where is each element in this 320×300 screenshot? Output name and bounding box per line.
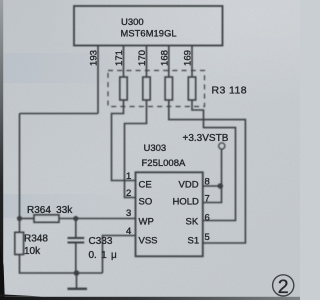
wire R3-b to U303 pin2 SO (125, 100, 147, 198)
wire U303 pin8 VDD to +3.3VSTB node (203, 185, 222, 187)
U303 pin number 7 (205, 194, 210, 205)
wire R364 to WP (59, 218, 136, 220)
svg-text:1: 1 (126, 171, 131, 182)
wire pin 171 stub (123, 46, 125, 78)
svg-text:MST6M19GL: MST6M19GL (121, 29, 177, 39)
resistor R348 (15, 232, 24, 254)
U303 pin number 2 (126, 188, 131, 199)
svg-text:R348: R348 (24, 234, 48, 245)
junction node A (left rail / R364 / R348) (17, 216, 22, 221)
svg-text:F25L008A: F25L008A (142, 158, 187, 169)
svg-text:CE: CE (139, 180, 152, 191)
resistor pack dashed outline R3 (108, 71, 205, 107)
U303 pin name SO (139, 197, 153, 208)
svg-text:R3 118: R3 118 (212, 85, 247, 97)
resistor R3-a (120, 77, 127, 100)
label MST6M19GL (121, 29, 177, 39)
resistor R364 (34, 215, 59, 223)
label R348 (24, 234, 48, 245)
page number circle 2 (273, 275, 294, 298)
svg-text:2: 2 (126, 188, 131, 199)
wire pin 193 vertical from U300 (97, 46, 99, 114)
svg-text:3: 3 (126, 208, 131, 219)
U303 pin name WP (139, 217, 154, 228)
svg-text:8: 8 (205, 177, 210, 188)
U303 pin name VSS (139, 236, 158, 247)
wire U303 pin3 WP rail with R364 (20, 218, 35, 220)
svg-text:171: 171 (114, 50, 125, 66)
page left dark edge (0, 0, 3, 300)
svg-text:HOLD: HOLD (173, 197, 200, 208)
U303 pin name SI (188, 236, 200, 247)
wire R3-a to U303 pin1 CE (112, 100, 136, 181)
junction node VDD / HOLD / +3.3VSTB (218, 183, 224, 189)
svg-text:169: 169 (183, 50, 194, 66)
capacitor C333 bottom lead (75, 244, 77, 274)
U303 pin number 4 (126, 226, 131, 237)
svg-text:4: 4 (126, 226, 131, 237)
capacitor C333 plates (68, 237, 85, 239)
label 0.1u (89, 250, 117, 261)
label U300 (121, 17, 144, 28)
U303 pin number 6 (205, 213, 210, 224)
ground bar (68, 288, 88, 290)
junction node C333 / ground / bottom rail (74, 270, 80, 276)
capacitor C333 top lead (75, 219, 77, 238)
svg-text:U303: U303 (144, 143, 167, 154)
label R364 33k (27, 205, 73, 216)
wire +3.3VSTB terminal lead (221, 149, 223, 186)
svg-text:SO: SO (139, 197, 153, 208)
svg-text:S1: S1 (188, 236, 200, 247)
svg-text:WP: WP (139, 217, 154, 228)
resistor R3-b (143, 77, 150, 100)
svg-text:U300: U300 (121, 17, 144, 28)
label U303 (144, 143, 167, 154)
svg-text:10k: 10k (24, 246, 41, 257)
wire R3-c to U303 pin5 SI (169, 100, 246, 243)
U303 pin number 1 (126, 171, 131, 182)
wire R348 to bottom rail (20, 255, 103, 274)
wire R3-d to U303 pin6 SK (192, 100, 236, 221)
ground lead (76, 273, 78, 288)
svg-text:193: 193 (89, 50, 100, 66)
svg-text:2: 2 (278, 276, 289, 298)
svg-text:VSS: VSS (139, 236, 158, 247)
junction node WP / C333 (73, 216, 78, 221)
svg-text:5: 5 (205, 232, 210, 243)
U303 pin name VDD (179, 180, 199, 191)
wire U303 pin4 VSS down to bottom rail (103, 236, 136, 274)
resistor R3-c (165, 77, 172, 100)
label F25L008A (142, 158, 187, 169)
wire pin 170 stub (146, 46, 148, 78)
svg-text:SK: SK (186, 217, 199, 228)
svg-text:C333: C333 (89, 236, 113, 247)
label 10k (24, 246, 41, 257)
svg-text:VDD: VDD (179, 180, 199, 191)
wire pin 169 stub (191, 46, 193, 78)
U303 pin number 5 (205, 232, 210, 243)
U303 pin number 8 (205, 177, 210, 188)
U303 pin name SK (186, 217, 199, 228)
U303 pin name CE (139, 180, 152, 191)
svg-text:7: 7 (205, 194, 210, 205)
label C333 (89, 236, 113, 247)
wire left rail down to node A (19, 114, 21, 233)
terminal circle +3.3VSTB (219, 143, 225, 149)
U303 pin number 3 (126, 208, 131, 219)
svg-text:6: 6 (205, 213, 210, 224)
wire pin 168 stub (168, 46, 170, 78)
IC U300 box (74, 6, 223, 46)
svg-text:168: 168 (159, 50, 170, 66)
svg-text:R364 33k: R364 33k (27, 205, 73, 216)
label R3 118 (212, 85, 247, 97)
wire U303 pin7 HOLD up to +3.3VSTB node (203, 186, 222, 203)
label +3.3VSTB (183, 133, 229, 144)
svg-text:+3.3VSTB: +3.3VSTB (183, 133, 229, 144)
IC U303 box (136, 172, 203, 256)
page bottom dark edge (0, 297, 300, 300)
resistor R3-d (188, 77, 195, 100)
wire pin 193 horizontal to left rail (20, 113, 99, 115)
svg-text:170: 170 (137, 50, 148, 66)
U303 pin name HOLD (173, 197, 200, 208)
svg-text:0. 1 μ: 0. 1 μ (89, 250, 117, 261)
